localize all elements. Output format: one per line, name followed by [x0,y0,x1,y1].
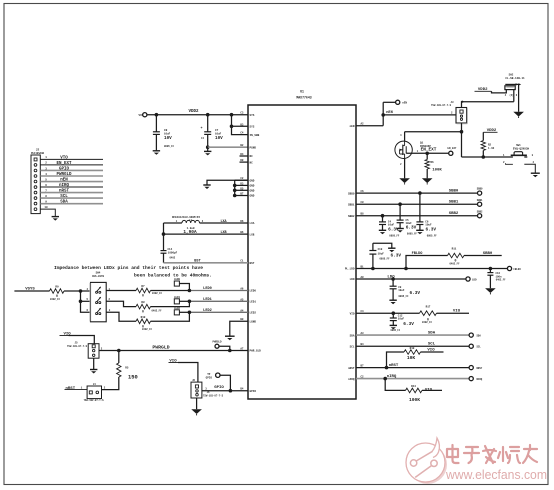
svg-text:SBB1: SBB1 [348,203,355,206]
svg-text:VIO: VIO [425,389,433,393]
node FBLDO at C16 [489,267,493,271]
resistor R7 [136,285,163,298]
wire J2 pin 4 net PWRGLD [40,173,103,177]
pin D8 NC of U1 (left) [240,159,254,164]
terminal EN_EXT [447,147,457,155]
node SBB2 [381,214,385,218]
svg-text:0402_FF: 0402_FF [50,298,61,301]
node SBB0 [418,191,422,195]
svg-text:LED2: LED2 [174,307,181,310]
svg-text:PGND: PGND [250,146,257,149]
svg-text:0805_FF: 0805_FF [407,233,418,236]
svg-text:R11: R11 [452,247,457,250]
svg-text:10uF: 10uF [398,289,405,292]
svg-text:(2): (2) [509,94,513,97]
wire J3 pin1 to SW2 [461,101,514,108]
pin C4 IN_SBB of U1 (left) [240,132,259,137]
terminal SBB0 [477,188,483,196]
terminal PWRGLD [212,341,229,351]
wire PGND to U1 [208,146,248,148]
ground SW1 [531,173,540,177]
svg-text:100K: 100K [432,168,442,172]
svg-text:LXB: LXB [250,233,255,236]
wire SW4 row1 to R7 [106,290,136,292]
pin C3 SYS of U1 (left) [240,112,254,117]
ground U1 GND pins [203,185,210,189]
svg-text:R8: R8 [141,301,145,304]
wire net VIO to J6 [169,359,198,382]
svg-text:NC: NC [250,155,254,158]
svg-text:10uF: 10uF [164,132,171,135]
svg-text:LED2: LED2 [250,312,257,315]
pin B3 SYS of U1 (left) [240,123,254,128]
svg-text:0805_FF: 0805_FF [164,145,175,148]
wire net VIO to J5 [60,332,95,343]
pin A7 PWR_GLD of U1 (left) [240,348,261,353]
wire J2 pin 6 net nIRQ [40,184,103,188]
wire R17 to net VIO [437,310,470,314]
svg-text:nRST: nRST [66,387,76,391]
node nEN [381,113,385,117]
pin B7 GND of U1 (left) [240,193,254,198]
svg-text:SBB0: SBB0 [483,252,493,256]
terminal nRST [469,366,483,370]
ground C10 [388,248,395,252]
pin B4 GPIO of U1 (left) [240,388,256,393]
svg-text:0402_FF: 0402_FF [152,309,163,312]
header J5 TSW-103-07-T-S [67,341,103,358]
svg-text:10uF: 10uF [425,224,432,227]
svg-text:PEC10SAAN: PEC10SAAN [31,152,44,155]
svg-text:0805_FF: 0805_FF [380,257,391,260]
node SBB1 [398,202,402,206]
svg-text:DFE201210U-1R0M=P2: DFE201210U-1R0M=P2 [172,216,200,219]
svg-text:10uF: 10uF [388,224,395,227]
svg-text:nRST: nRST [348,367,355,370]
test point TP GPIO [206,373,231,391]
pin B4 SCL of U1 (right) [350,343,364,348]
svg-text:nIRQ: nIRQ [387,375,397,379]
node FBLDO at C10 [371,267,375,271]
svg-text:R6: R6 [431,161,435,164]
svg-text:SW2: SW2 [509,74,514,77]
pin C6 SBB0 of U1 (right) [348,190,364,195]
wire net SBB1 [356,201,477,205]
ground C4 [379,230,386,234]
svg-text:PL_LDO: PL_LDO [345,268,355,271]
capacitor C10 [369,243,401,268]
svg-text:TSW-103-07-T-S: TSW-103-07-T-S [431,104,452,107]
node PGND at C7 [206,145,210,149]
svg-text:LED1: LED1 [250,301,257,304]
svg-text:6.3V: 6.3V [403,322,414,327]
svg-text:R9: R9 [55,285,59,288]
pin B7 nRST of U1 (right) [348,365,364,370]
ground Q1 [399,178,410,184]
wire R10 to U1 LED2 [151,309,249,322]
pin B1 PL_LDO of U1 (right) [345,266,364,271]
svg-text:10K: 10K [407,355,416,361]
svg-text:PWRGLD: PWRGLD [152,345,169,351]
svg-text:R14: R14 [411,385,416,388]
svg-text:VSYS: VSYS [25,287,35,291]
svg-text:LDO: LDO [472,278,477,281]
wire J2 pin 8 net SCL [40,195,103,199]
svg-text:nIRQ: nIRQ [348,378,355,381]
capacitor C6 [416,193,437,237]
svg-text:NRST: NRST [477,367,483,370]
wire net SCL [356,343,469,347]
pin A8 LDO of U1 (right) [350,276,364,281]
svg-text:B2: B2 [240,144,244,147]
resistor R10 led [136,316,153,331]
node FBLDO at R11 [404,267,408,271]
pin C8 SBB1 of U1 (right) [348,201,364,206]
terminal nIRQ [469,377,483,381]
svg-text:GPIO: GPIO [59,167,70,171]
svg-text:SBB0: SBB0 [477,188,483,191]
test point LED2 [174,307,189,315]
svg-text:R5: R5 [125,366,129,369]
svg-text:R10: R10 [410,347,415,350]
resistor R11 0ohm [448,247,465,265]
wire J3 pin3 to Q1 gate node [405,123,462,157]
svg-text:10uF: 10uF [406,222,413,225]
svg-text:6.3V: 6.3V [406,226,417,231]
node LED1 [188,300,192,304]
pin A2 nEN of U1 (right) [350,123,364,128]
node nIRQ at R14 [383,377,387,381]
test point LED0 [174,278,189,291]
svg-text:LED0: LED0 [174,278,181,281]
svg-text:SBB0: SBB0 [348,192,355,195]
pin B8 SBB2 of U1 (right) [348,213,364,218]
node PWRGLD at TP [228,349,232,353]
svg-text:EN_EXT: EN_EXT [56,162,72,166]
resistor R9 [50,285,65,301]
svg-text:nEN: nEN [60,179,68,183]
node GPIO [229,389,233,393]
svg-text:0402: 0402 [170,257,176,260]
capacitor C14 bootstrap [161,248,178,263]
svg-text:SDA: SDA [477,334,482,337]
node LED0 [188,289,192,293]
svg-text:GPIO: GPIO [206,376,213,379]
resistor R2 1.1K [481,141,495,157]
svg-text:100K: 100K [409,397,420,403]
svg-text:0805_FF: 0805_FF [389,234,400,237]
pin D5 GND of U1 (left) [240,187,254,192]
svg-text:SCL: SCL [477,346,482,349]
svg-text:J5: J5 [74,341,78,344]
svg-text:SDA: SDA [428,331,436,335]
wire SW4 row3 to R10 [106,312,136,321]
svg-text:SBB1: SBB1 [449,201,459,205]
svg-text:SYS: SYS [250,114,255,117]
capacitor C9 [390,279,421,300]
resistor R6 100K [425,153,442,178]
switch SW1 EVQ-Q2K03W pushbutton [503,144,535,173]
ground C8 [153,151,160,155]
wire net BST [164,259,249,263]
ground C16 [485,288,496,294]
wire net SBB2 [356,212,477,216]
svg-text:R7: R7 [141,285,145,288]
svg-text:SBB2: SBB2 [449,212,459,216]
svg-text:LDO: LDO [350,278,355,281]
wire J6 bottom to ground [196,398,198,409]
node VIO at C12 [392,311,396,315]
wire Q1 drain [404,132,406,141]
wire net PWRGLD [99,345,248,351]
svg-text:SBB2: SBB2 [348,215,355,218]
op-amp U1 MAX77643 PMIC body [248,90,356,399]
svg-text:0: 0 [142,294,144,298]
wire LGND to ground [230,321,248,336]
wire net nIRQ [356,375,469,379]
svg-text:150: 150 [128,375,138,381]
svg-text:SBB1: SBB1 [477,199,483,202]
svg-text:10uF: 10uF [398,318,405,321]
svg-text:0402_FF: 0402_FF [152,292,163,295]
pin A5 LED1 of U1 (left) [240,298,256,303]
svg-text:Impedance between LEDx pins an: Impedance between LEDx pins and their te… [54,265,203,271]
wire SW2 to ground [518,84,520,111]
ground J2 [52,217,59,221]
inductor L1 [164,216,249,235]
terminal SCL [469,344,481,348]
node LED2 [188,311,192,315]
ground J5 [90,370,97,374]
svg-text:0805_FF: 0805_FF [427,234,438,237]
svg-text:SBB0: SBB0 [449,190,459,194]
svg-text:0402_FF: 0402_FF [422,321,433,324]
resistor R8 [136,301,162,314]
svg-text:FBLDO: FBLDO [412,252,424,256]
svg-text:0402_FF: 0402_FF [449,262,460,265]
connector J2 [31,149,45,214]
header J7 nRST TSW-102-07-T-S [65,383,106,402]
switch SW4 CHS-03TB [87,272,111,322]
wire J2 pin 5 net nEN [40,178,103,182]
wire net VDD2 to R2 [483,129,497,141]
svg-text:EN_EXT: EN_EXT [421,148,437,153]
svg-text:+: + [200,127,202,131]
svg-text:C4: C4 [240,132,244,135]
svg-text:LED2: LED2 [203,309,212,313]
svg-text:SDA: SDA [350,334,355,337]
test point LED1 [174,296,189,304]
wire net LDO [356,275,466,279]
svg-text:10V: 10V [215,136,223,141]
svg-text:nRST: nRST [389,364,399,368]
svg-text:SCL: SCL [60,195,68,199]
svg-text:VIO: VIO [350,312,355,315]
svg-text:0805_FF: 0805_FF [391,329,401,332]
svg-text:VTO: VTO [60,156,68,160]
svg-text:TSW-102-07-T-S: TSW-102-07-T-S [83,399,104,402]
svg-text:R2: R2 [488,143,492,146]
terminal nEN [396,100,408,104]
svg-text:www.elecfans.com: www.elecfans.com [445,467,547,482]
svg-text:C3: C3 [240,112,244,115]
wire J2 pin 3 net GPIO [40,167,103,171]
ground C7 PGND [204,147,211,155]
wire R11 to net SBB0 [464,252,502,256]
terminal VIN [139,113,147,118]
svg-text:10V: 10V [164,136,172,141]
svg-text:nEN: nEN [386,111,392,115]
node VDD2 at C8 [155,113,159,117]
svg-text:VIN: VIN [139,114,144,117]
resistor R17 0ohm [420,306,437,325]
wire VDD2 branch to SYS and IN_SBB [230,115,248,135]
svg-text:TSW-103-07-T-S: TSW-103-07-T-S [67,345,88,348]
pin C2 nIRQ of U1 (right) [348,376,364,381]
wire net VDD2 to SW2 [475,88,507,93]
svg-text:LED1: LED1 [203,298,212,302]
ground R6 [422,178,433,184]
wire J5 pin3 to ground [93,358,95,369]
wire net nEN [356,102,456,125]
switch SW2 CL-SB-12B-11 [505,74,525,98]
svg-text:10uF: 10uF [378,252,385,255]
wire net VSYS [14,287,49,291]
pin B9 LGND of U1 (left) [240,318,256,323]
pin A3 SDA of U1 (right) [350,332,364,337]
pin B2 PGND of U1 (left) [240,144,256,149]
svg-text:EVQ-Q2K03W: EVQ-Q2K03W [513,148,530,151]
svg-text:PWR_GLD: PWR_GLD [250,350,262,353]
svg-text:PWRGLD: PWRGLD [56,173,72,177]
wire net GPIO [202,386,248,391]
wire net SBB0 [356,190,477,194]
wire net nRST [356,364,469,368]
wire net EN_EXT [406,148,449,154]
svg-text:LXA: LXA [220,220,227,224]
svg-text:nIRQ: nIRQ [59,184,70,188]
svg-text:VIO: VIO [427,349,435,353]
svg-text:BST: BST [250,262,255,265]
svg-text:R17: R17 [426,306,431,309]
svg-text:CHS-03TB: CHS-03TB [92,275,105,278]
header J6 GPIO TSW-103-07-T-S [191,379,224,398]
svg-text:10uF: 10uF [215,132,222,135]
pin C2 GND of U1 (left) [240,177,254,182]
wire net VIO row [356,312,420,314]
svg-text:EN_EXT: EN_EXT [447,147,457,150]
wire LX node vertical [162,223,166,251]
svg-text:LGND: LGND [250,320,257,323]
terminal FBLDO [507,266,521,271]
node nRST at R10 [385,366,389,370]
capacitor C4 [379,216,400,238]
wire J2 pin 10 to ground [40,206,55,217]
svg-text:GPIO: GPIO [214,386,224,390]
svg-text:CL-SB-12B-11: CL-SB-12B-11 [505,77,525,80]
watermark chinese brand strokes [447,445,537,463]
resistor R14 100K pullup [385,379,442,404]
ground C5 [396,229,403,233]
svg-text:nEN: nEN [402,102,407,105]
wire SW2 to J3 pin1 [513,90,515,102]
ground C9 [389,300,396,304]
svg-text:0: 0 [142,310,144,314]
wire LXB [164,231,249,235]
ground SW2 [513,112,524,118]
svg-text:GND: GND [250,190,255,193]
pin C1 BST of U1 (left) [240,260,254,265]
svg-text:VIO: VIO [453,310,461,314]
svg-text:BST: BST [194,259,201,263]
header J3 TSW-103-07-T-S [431,101,467,124]
svg-text:1000pF: 1000pF [168,252,178,255]
node VDD2 branch [230,113,234,117]
wire net SDA [356,331,469,335]
svg-text:GND: GND [250,179,255,182]
wire J2 pin 2 net EN_EXT [40,162,103,166]
pin D3 GND of U1 (left) [240,182,254,187]
svg-text:0805_FF: 0805_FF [399,295,410,298]
svg-text:U1: U1 [300,90,304,94]
svg-text:1.1K: 1.1K [488,147,495,150]
svg-text:SCL: SCL [350,345,355,348]
svg-text:IN_SBB: IN_SBB [250,134,260,137]
svg-text:LXA: LXA [250,222,255,225]
svg-text:MAX77643: MAX77643 [296,96,311,100]
svg-text:nRST: nRST [59,190,70,194]
ground J6 [191,409,202,415]
pin D4 NC of U1 (left) [240,153,254,158]
node EN_EXT [425,152,429,156]
pin A4 LED2 of U1 (left) [240,309,256,314]
svg-text:TSW-103-07-T-S: TSW-103-07-T-S [203,394,224,397]
svg-text:LED1: LED1 [174,296,181,299]
svg-text:R10: R10 [141,316,146,319]
capacitor C8 [153,115,175,151]
svg-text:GPIO: GPIO [250,390,257,393]
svg-text:VDD2: VDD2 [188,110,199,114]
terminal SBB2 [477,210,483,217]
svg-text:SCL: SCL [428,343,436,347]
ground LGND [225,336,235,340]
pin B6 LXB of U1 (left) [240,231,254,236]
svg-text:FBLDO: FBLDO [514,268,522,271]
svg-text:NIRQ: NIRQ [477,378,483,381]
svg-text:LXB: LXB [220,231,226,235]
pin C4 VIO of U1 (right) [350,310,364,315]
wire R7 to U1 LED0 [151,287,249,291]
node LDO [391,277,395,281]
pin D6 LXA of U1 (left) [240,220,254,225]
svg-text:6.3V: 6.3V [391,253,402,258]
wire FBLDO to R11 [406,252,448,268]
wire SW4 row2 to R8 [106,301,136,306]
wire J2 pin 7 net nRST [40,189,103,193]
node J3 pin3 [460,130,464,134]
pin A6 LED0 of U1 (left) [240,288,256,293]
resistor R5 150 [102,351,138,390]
capacitor C5 [397,204,418,235]
svg-text:6.3V: 6.3V [410,291,421,296]
wire net VDD2 [147,110,248,115]
svg-text:GND: GND [250,195,255,198]
svg-text:PWRGLD: PWRGLD [212,341,222,344]
svg-text:NC: NC [250,161,254,164]
svg-text:C10: C10 [378,248,383,251]
node PWRGLD at R5 [117,349,121,353]
watermark elecfans logo [406,438,447,484]
